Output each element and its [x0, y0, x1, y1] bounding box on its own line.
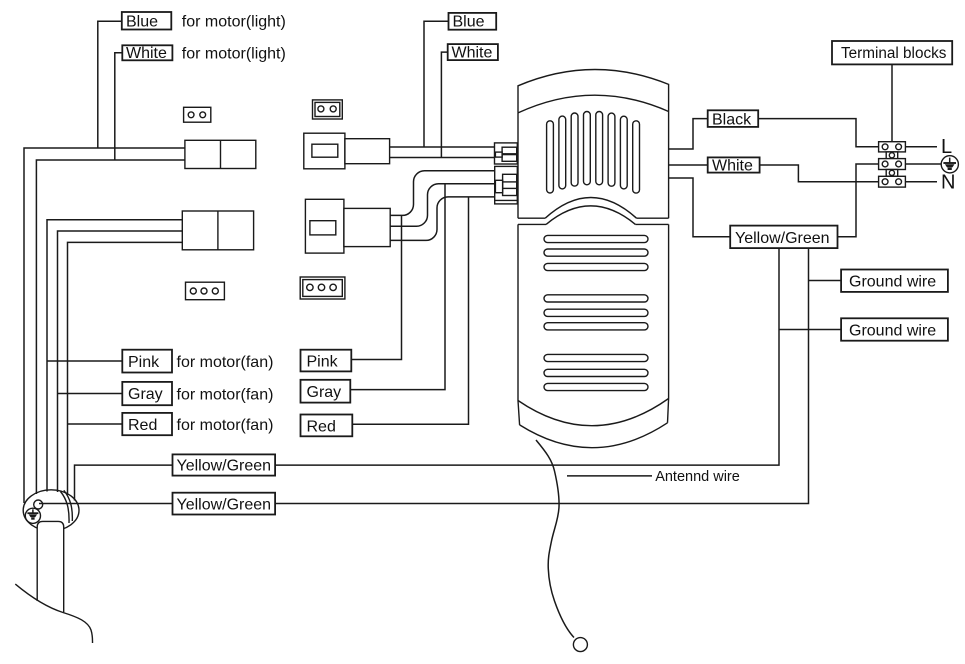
wire gray bundle D [58, 231, 183, 492]
label Yellow/Green 1 (left) [173, 454, 276, 475]
wire ground 2 [779, 329, 841, 331]
terminal link 2 [886, 170, 898, 177]
wire yellow/green 1 left [75, 465, 173, 500]
wire white-light bundle B [36, 160, 185, 494]
svg-text:for motor(fan): for motor(fan) [177, 417, 274, 434]
motor vent slots (8) [547, 112, 640, 194]
svg-text:for motor(light): for motor(light) [182, 14, 286, 31]
terminal block row 1 [879, 142, 906, 152]
svg-text:Gray: Gray [307, 384, 342, 401]
wire tap Pink label left [47, 360, 122, 362]
svg-text:White: White [452, 45, 493, 62]
antenna pointer line [567, 475, 652, 477]
svg-text:Antennd wire: Antennd wire [655, 469, 740, 485]
label Ground wire 2 [841, 318, 948, 340]
label Blue (top-left) [122, 12, 286, 31]
svg-text:White: White [126, 45, 167, 62]
svg-text:Yellow/Green: Yellow/Green [735, 230, 830, 247]
motor comb connector lower [495, 166, 518, 204]
wire yellow/green label to terminal [838, 164, 879, 237]
motor left edge [517, 113, 519, 401]
svg-text:Terminal blocks: Terminal blocks [841, 45, 947, 62]
wire ground terminal [905, 163, 941, 165]
connector 3-hole small (left) [186, 282, 225, 300]
wire white label to terminal [760, 165, 879, 182]
wire tap White middle [441, 52, 447, 157]
ball inner arc detail [61, 492, 70, 524]
terminal block row 3 [879, 176, 906, 187]
svg-text:Blue: Blue [126, 13, 158, 30]
svg-text:Red: Red [128, 417, 157, 434]
wire blue-light vertical bundle A [24, 21, 185, 503]
svg-text:Yellow/Green: Yellow/Green [177, 458, 272, 475]
wire yellow/green 2 left [39, 503, 173, 505]
ground symbol circle (right) [941, 156, 958, 173]
motor body slots (3 groups of 3) [544, 235, 648, 390]
wire N [905, 181, 937, 183]
wire S-curve 3 (red) [390, 197, 494, 241]
label Red (left) [122, 413, 273, 435]
svg-text:for motor(fan): for motor(fan) [177, 386, 274, 403]
plug upper-middle [304, 133, 390, 169]
connector 2-hole double-border (middle) [313, 100, 343, 119]
motor top cap [518, 69, 669, 112]
wire L [905, 146, 937, 148]
label Blue (middle) [449, 13, 497, 31]
svg-text:for motor(fan): for motor(fan) [177, 354, 274, 371]
svg-text:Ground wire: Ground wire [849, 322, 936, 339]
wire tap Blue middle [424, 21, 449, 147]
label Red (middle) [301, 415, 353, 437]
svg-text:Black: Black [712, 111, 752, 128]
terminal link 1 [886, 152, 898, 159]
terminal block row 2 [879, 159, 906, 170]
connector block upper-left (two-cell) [185, 140, 256, 168]
bracket flare curve [15, 584, 92, 643]
wire black motor to label [669, 119, 708, 149]
motor band + arch [518, 218, 669, 224]
wire yellow/green motor to label [669, 178, 731, 237]
wire red middle label up [352, 197, 468, 424]
svg-text:White: White [712, 157, 753, 174]
wire ground 1 [809, 280, 842, 282]
svg-text:for motor(light): for motor(light) [182, 46, 286, 63]
label Black [708, 110, 759, 128]
label Pink (left) [122, 350, 273, 373]
motor body [518, 69, 669, 447]
antenna wire [536, 440, 574, 638]
svg-text:Pink: Pink [307, 354, 339, 371]
wire S-curve 1 (pink) plug to motor [390, 171, 494, 216]
connector 3-hole double-border (middle) [300, 277, 345, 299]
wire tap Red label left [68, 423, 123, 425]
wire pink bundle C [47, 220, 182, 492]
label Yellow/Green (right) [730, 226, 837, 249]
wire white motor to label [669, 164, 708, 166]
label Pink (middle) [301, 350, 352, 372]
label Gray (middle) [301, 380, 351, 403]
wire yellow/green 1 long horizontal [275, 248, 779, 465]
svg-text:L: L [941, 136, 952, 158]
label Yellow/Green 2 (left) [173, 493, 276, 515]
plug lower-middle [305, 199, 390, 253]
wire plug to motor upper stub2 [390, 157, 495, 159]
wire tap Blue label left [98, 21, 122, 148]
label White (middle) [448, 44, 498, 62]
wire tap White label left [115, 53, 123, 160]
connector 2-hole small (left) [184, 107, 211, 122]
wire yellow/green 2 long horizontal [275, 248, 808, 503]
ball ground symbol [27, 509, 38, 518]
motor right edge [668, 112, 670, 399]
svg-text:Ground wire: Ground wire [849, 274, 936, 291]
downrod [15, 521, 92, 643]
motor bottom rim [518, 399, 669, 426]
label White (right) [708, 157, 760, 174]
motor comb connector upper [495, 143, 518, 164]
connector block lower-left (two-cell) [182, 211, 253, 250]
wire tap Gray label left [58, 393, 123, 395]
wire red bundle E [68, 242, 183, 495]
wire terminal label pointer [891, 64, 893, 141]
svg-text:Gray: Gray [128, 386, 163, 403]
svg-text:N: N [941, 172, 955, 194]
label Terminal blocks [832, 41, 952, 64]
ball small circle [34, 500, 43, 509]
hanger ball body [23, 490, 79, 531]
svg-text:Pink: Pink [128, 354, 160, 371]
wire black label to terminal [758, 119, 878, 147]
antenna pull circle [573, 638, 587, 652]
label Gray (left) [122, 382, 273, 405]
wire plug to motor upper stub1 [390, 146, 495, 148]
wire pink middle label up [351, 215, 401, 359]
ball ground circle [25, 508, 40, 523]
label White (top-left) [122, 45, 286, 62]
svg-text:Red: Red [307, 418, 336, 435]
svg-text:Blue: Blue [453, 14, 485, 31]
svg-text:Yellow/Green: Yellow/Green [177, 496, 272, 513]
wire S-curve 2 (gray) [390, 184, 494, 226]
label Ground wire 1 [841, 270, 948, 292]
wire gray middle label up [350, 184, 445, 390]
